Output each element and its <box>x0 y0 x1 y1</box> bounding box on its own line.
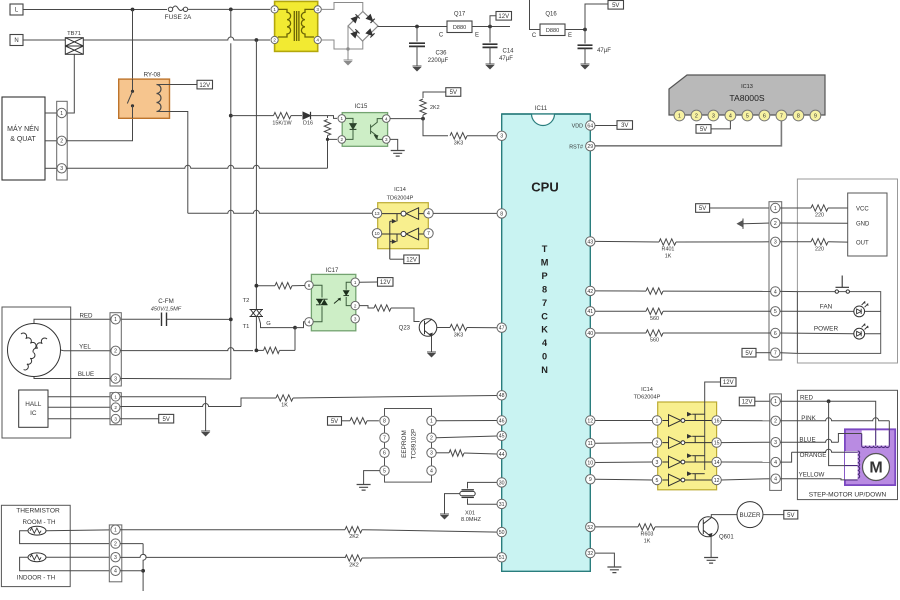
svg-text:N: N <box>541 365 548 375</box>
wire conn pin3 to 220 to OUT <box>780 241 811 243</box>
ground eeprom <box>357 485 371 491</box>
wire buzzer to 5V <box>763 514 784 516</box>
svg-text:12V: 12V <box>199 83 210 89</box>
bridge rectifier D1-D4 <box>348 12 378 42</box>
svg-text:32: 32 <box>587 551 593 557</box>
svg-text:TD62004P: TD62004P <box>634 395 661 401</box>
IC14R inverter 1 <box>669 415 682 427</box>
relay coil <box>157 85 162 112</box>
svg-text:1: 1 <box>273 7 276 12</box>
supply 5V buzzer <box>784 510 798 519</box>
wire 12V feed to Q16 <box>530 0 541 30</box>
svg-text:0: 0 <box>542 352 547 362</box>
svg-text:12V: 12V <box>380 280 391 286</box>
diode D16 <box>303 112 311 120</box>
svg-text:3: 3 <box>774 440 777 446</box>
svg-text:51: 51 <box>499 555 505 561</box>
svg-text:3: 3 <box>60 166 63 172</box>
hall sensor box VCC GND OUT <box>848 193 887 256</box>
wire 5V to conn pin1 <box>710 207 771 209</box>
svg-text:P: P <box>542 271 548 281</box>
wire transformer pin4 to bridge <box>321 40 363 49</box>
svg-text:4: 4 <box>316 38 319 43</box>
wire coil to driver IC14 pin 13 <box>157 112 188 214</box>
svg-text:5V: 5V <box>787 513 794 519</box>
svg-text:R603: R603 <box>641 532 654 538</box>
svg-text:52: 52 <box>587 525 593 531</box>
step motor left winding <box>845 451 858 480</box>
EEPROM TC89102P <box>385 409 432 483</box>
svg-text:30: 30 <box>499 480 505 486</box>
wire Q23 emitter to ground <box>431 336 433 352</box>
resistor 560 b <box>646 330 663 336</box>
wire crystal to CPU31 <box>468 499 498 505</box>
wire CPU41 560 to conn pin5 <box>595 310 646 312</box>
svg-text:4: 4 <box>774 460 777 466</box>
svg-text:IC14: IC14 <box>641 387 653 393</box>
svg-text:14: 14 <box>714 460 720 466</box>
svg-text:3K3: 3K3 <box>454 333 464 339</box>
wire hall pin2 to 1K to CPU pin48 <box>120 404 241 407</box>
connector motor CN2 <box>110 313 121 386</box>
svg-text:ORANGE: ORANGE <box>800 452 827 459</box>
led POWER <box>854 328 865 339</box>
svg-text:IC: IC <box>30 410 37 417</box>
svg-text:11: 11 <box>588 441 593 447</box>
wire box to pin1 <box>45 112 57 114</box>
svg-text:3: 3 <box>774 240 777 246</box>
svg-text:5: 5 <box>656 478 659 484</box>
svg-text:8: 8 <box>500 211 503 217</box>
svg-text:4: 4 <box>430 468 433 474</box>
svg-text:RED: RED <box>800 395 814 402</box>
transformer T1 power <box>275 1 318 51</box>
CPU right pins <box>586 121 595 130</box>
svg-text:3: 3 <box>430 451 433 457</box>
IC14L clamp diode B <box>390 234 397 242</box>
supply 3V <box>617 121 633 130</box>
IC14L clamp diode A <box>390 214 397 222</box>
wire CPU43 R401 to conn pin3 <box>595 240 659 243</box>
wire 12V to IC14R common <box>705 382 721 470</box>
svg-text:T: T <box>542 244 548 254</box>
IC14R inverter 2 <box>669 437 682 449</box>
resistor Q23 base <box>374 305 391 311</box>
svg-text:2: 2 <box>114 405 117 410</box>
block THERMISTOR <box>1 505 70 586</box>
wire CPU11 to IC14R pin2 <box>595 442 652 445</box>
svg-text:TB71: TB71 <box>67 31 81 37</box>
svg-text:6: 6 <box>383 451 386 457</box>
svg-text:41: 41 <box>587 309 593 315</box>
svg-text:47µF: 47µF <box>597 48 611 54</box>
svg-text:Q601: Q601 <box>719 535 734 541</box>
svg-text:12V: 12V <box>723 380 734 386</box>
wire L to relay switch <box>132 10 134 80</box>
svg-text:POWER: POWER <box>814 326 839 333</box>
svg-text:6: 6 <box>308 283 311 288</box>
svg-text:10: 10 <box>374 231 380 236</box>
resistor eeprom pullup <box>342 420 351 422</box>
IC14R stage wire 4 <box>662 479 711 481</box>
resistor 3K3 zero-cross <box>450 133 467 139</box>
IC14R clamp diode 4 <box>687 474 695 480</box>
IC14R inverter 4 <box>669 474 682 486</box>
svg-text:X01: X01 <box>465 511 475 517</box>
gnd arrow display <box>738 221 744 227</box>
svg-text:Q16: Q16 <box>545 12 557 18</box>
ground crystal <box>440 513 449 515</box>
wire IC13 pin7 to CPU RST <box>594 121 781 146</box>
svg-text:M: M <box>541 257 549 267</box>
wire IC15 pin4 to pullup node <box>390 118 423 120</box>
IC14L inverter A <box>382 208 424 220</box>
svg-text:9: 9 <box>814 114 817 120</box>
wire IC15 pin3 to ground <box>390 139 398 150</box>
svg-text:450V/1,5MF: 450V/1,5MF <box>151 307 182 313</box>
ground C36 <box>413 65 422 67</box>
svg-text:4: 4 <box>385 116 388 121</box>
IC14L common line <box>389 221 391 259</box>
svg-text:2: 2 <box>695 114 698 120</box>
svg-text:C-FM: C-FM <box>158 298 173 305</box>
svg-text:7: 7 <box>780 114 783 120</box>
svg-text:INDOOR - TH: INDOOR - TH <box>17 575 55 582</box>
svg-text:4: 4 <box>114 569 117 575</box>
ground hall <box>201 430 210 432</box>
resistor 2K2 indoor <box>345 555 362 561</box>
wire Q17 E to 12V node <box>472 26 510 28</box>
svg-text:YEL: YEL <box>79 344 91 351</box>
supply 12V step motor <box>739 397 755 406</box>
svg-text:D16: D16 <box>303 121 313 127</box>
svg-text:8: 8 <box>383 419 386 425</box>
wire eeprom pin2 to CPU45 <box>436 436 497 438</box>
wire CPU52 to R603 <box>595 526 638 528</box>
wire CPU12 to IC14R pin1 <box>595 420 652 422</box>
svg-text:IC17: IC17 <box>326 268 339 274</box>
svg-text:T2: T2 <box>243 298 250 304</box>
svg-text:GND: GND <box>856 221 870 227</box>
svg-text:5: 5 <box>746 114 749 120</box>
svg-text:OUT: OUT <box>856 240 869 246</box>
supply 12V IC14R <box>721 378 737 387</box>
wire room th to 2K2 to CPU50 <box>120 529 345 531</box>
supply 5V hall <box>159 414 174 423</box>
IC14L inverter B <box>382 228 424 240</box>
svg-text:5V: 5V <box>700 127 707 133</box>
IC13 pins 1-9 <box>674 110 685 121</box>
svg-text:10: 10 <box>587 460 593 466</box>
svg-text:1: 1 <box>678 114 681 120</box>
svg-text:7: 7 <box>774 351 777 357</box>
block HALL IC <box>19 390 48 427</box>
capacitor C36 2200uF <box>416 27 418 42</box>
IC14R clamp diode 2 <box>687 436 695 442</box>
wire IC14L pin4 to CPU pin8 <box>433 212 497 214</box>
supply 5V display <box>696 204 710 213</box>
wire thermistor common down <box>120 543 143 545</box>
svg-text:1: 1 <box>114 528 117 534</box>
svg-text:TA8000S: TA8000S <box>729 93 764 103</box>
svg-text:560: 560 <box>650 338 659 344</box>
IC14R stage wire 1 <box>662 420 711 422</box>
svg-text:BUZER: BUZER <box>740 512 762 519</box>
ground Q601 <box>704 558 718 564</box>
IC14R stage wire 2 <box>662 442 711 444</box>
svg-text:31: 31 <box>499 502 505 508</box>
supply 12V relay <box>197 80 213 89</box>
svg-text:47: 47 <box>499 326 505 332</box>
connector compressor CN1 <box>57 101 67 180</box>
svg-text:2K2: 2K2 <box>430 105 440 111</box>
supply 12V main <box>496 12 512 21</box>
svg-text:5: 5 <box>383 468 386 474</box>
wire eeprom pin3 resistor to CPU44 <box>436 452 449 454</box>
svg-text:42: 42 <box>587 289 593 295</box>
ground CPU32 <box>607 567 621 573</box>
svg-text:220: 220 <box>815 246 824 252</box>
wire IC14R pin14 to step conn4 <box>721 461 771 463</box>
ground IC15 <box>391 151 405 157</box>
svg-text:5V: 5V <box>163 417 170 423</box>
svg-text:47µF: 47µF <box>499 56 513 62</box>
resistor R401 1K <box>659 239 676 245</box>
crystal X01 8.0MHZ <box>462 489 474 491</box>
svg-text:C: C <box>532 33 537 39</box>
wire CPU32 to ground <box>595 553 614 566</box>
svg-text:K: K <box>541 325 548 335</box>
svg-text:EEPROM: EEPROM <box>401 430 408 458</box>
buzzer BUZER <box>737 502 763 528</box>
svg-text:E: E <box>475 33 479 39</box>
svg-text:T1: T1 <box>243 324 250 330</box>
svg-text:C: C <box>439 33 444 39</box>
svg-text:12V: 12V <box>742 400 753 406</box>
step motor outer box <box>797 390 897 499</box>
svg-text:48: 48 <box>499 393 505 399</box>
wire RED center tap branch <box>829 401 845 465</box>
wire fuse to transformer pin 1 <box>188 8 270 10</box>
wire N to transformer pin 2 <box>23 37 270 40</box>
svg-text:4: 4 <box>542 338 548 348</box>
wire VDD to 3V <box>594 125 617 127</box>
IC17 internal photodiode <box>346 282 351 305</box>
resistor IC17 pin6 to N rail <box>256 285 275 287</box>
svg-text:5V: 5V <box>331 419 338 425</box>
svg-text:5V: 5V <box>699 206 706 212</box>
wire CPU9 to IC14R pin5 <box>595 478 652 481</box>
svg-text:1: 1 <box>114 317 117 323</box>
ground C14 <box>486 63 495 65</box>
IC14R clamp diode 3 <box>687 456 695 462</box>
svg-text:2: 2 <box>354 303 357 308</box>
wire bridge output rail <box>378 25 447 28</box>
resistor 560 a <box>646 308 663 314</box>
svg-text:1: 1 <box>114 394 117 399</box>
wire hall pin3 to 5V <box>120 418 158 420</box>
svg-text:3: 3 <box>114 555 117 561</box>
wire box to pin2 <box>45 140 57 142</box>
thermistor INDOOR-TH <box>28 553 46 562</box>
svg-text:FAN: FAN <box>820 303 833 310</box>
resistor 2K2 room <box>345 527 362 533</box>
wire coil to 12V <box>157 84 198 86</box>
svg-text:7: 7 <box>383 436 386 442</box>
svg-text:1: 1 <box>774 399 777 405</box>
svg-text:5V: 5V <box>612 3 619 9</box>
terminal L <box>10 4 23 15</box>
svg-text:15: 15 <box>714 440 720 446</box>
svg-text:RST#: RST# <box>569 144 583 150</box>
svg-text:IC15: IC15 <box>355 104 368 110</box>
ground Q23 <box>427 351 436 353</box>
wire indoor th <box>46 556 110 558</box>
wire N rail vertical to triac <box>255 40 257 309</box>
svg-text:3: 3 <box>354 316 357 321</box>
wire IC14R pin15 to step conn3 <box>721 441 771 443</box>
wire YEL to triac T1 <box>120 348 253 351</box>
svg-text:C: C <box>541 311 548 321</box>
svg-text:2: 2 <box>656 440 659 446</box>
supply 5V eeprom <box>328 417 342 426</box>
svg-text:IC11: IC11 <box>535 106 548 112</box>
supply 12V IC17 <box>378 278 394 287</box>
svg-text:8: 8 <box>542 284 547 294</box>
wire box to pin3 <box>45 167 57 169</box>
led FAN <box>854 306 865 317</box>
svg-text:ROOM - TH: ROOM - TH <box>23 519 56 526</box>
wire eeprom pin1 to CPU46 <box>436 420 497 422</box>
supply 12V IC14L <box>404 255 420 264</box>
svg-text:3: 3 <box>656 460 659 466</box>
diode bridge arm 2 <box>366 14 374 22</box>
connector display CN5 <box>769 202 782 360</box>
resistor 3K3 Q23 <box>450 324 467 330</box>
wire Q23 collector to 3K3 <box>437 327 450 329</box>
wire CPU10 to IC14R pin3 <box>595 461 652 464</box>
svg-text:STEP-MOTOR UP/DOWN: STEP-MOTOR UP/DOWN <box>809 492 887 499</box>
thermistor ROOM-TH <box>28 526 46 535</box>
svg-text:5V: 5V <box>450 90 457 96</box>
capacitor C14 47uF <box>489 27 491 43</box>
svg-text:IC14: IC14 <box>394 187 406 193</box>
svg-text:2: 2 <box>774 419 777 425</box>
wire Q601 collector to buzzer <box>711 515 737 518</box>
step motor M circle <box>863 454 890 481</box>
svg-text:E: E <box>568 33 572 39</box>
svg-text:9: 9 <box>589 477 592 483</box>
connector step motor CN6 <box>770 394 782 491</box>
svg-text:3K3: 3K3 <box>454 141 464 147</box>
step motor unit <box>845 429 895 485</box>
svg-text:4: 4 <box>729 114 732 120</box>
svg-text:Q17: Q17 <box>454 12 466 18</box>
diode bridge arm 4 <box>366 29 374 37</box>
wire CPU42 to conn pin4 <box>595 290 646 292</box>
svg-text:1K: 1K <box>644 539 651 545</box>
supply 5V pullup <box>446 88 461 97</box>
svg-text:2K2: 2K2 <box>349 534 359 540</box>
resistor 220 out <box>811 239 828 245</box>
ground bridge <box>344 59 353 61</box>
svg-text:4: 4 <box>427 211 430 217</box>
svg-text:2K2: 2K2 <box>349 563 359 569</box>
supply 5V conn pin7 <box>742 348 756 357</box>
wire conn pin7 right <box>780 352 797 355</box>
svg-text:43: 43 <box>587 239 593 245</box>
IC14R stage wire 3 <box>662 461 711 463</box>
CPU IC11 TMP87CK40N <box>502 114 591 571</box>
resistor 220 vcc <box>811 205 828 211</box>
wire conn pin1 to 220 to VCC <box>780 207 811 209</box>
svg-text:1K: 1K <box>665 254 672 260</box>
push button <box>835 290 838 293</box>
wire CPU30 to crystal <box>468 482 498 488</box>
svg-text:12: 12 <box>587 418 593 424</box>
svg-text:45: 45 <box>499 434 505 440</box>
svg-text:2: 2 <box>430 436 433 442</box>
svg-text:29: 29 <box>587 144 593 150</box>
display unit outer box <box>797 179 897 363</box>
svg-text:40: 40 <box>587 331 593 337</box>
svg-text:THERMISTOR: THERMISTOR <box>16 508 60 515</box>
svg-text:8.0MHZ: 8.0MHZ <box>461 517 481 523</box>
wire eeprom pin5 to ground <box>364 471 380 484</box>
svg-text:12V: 12V <box>406 257 417 263</box>
wire hall pin1 to ground <box>120 397 205 431</box>
svg-text:4: 4 <box>774 477 777 483</box>
resistor 2K2 pullup <box>423 92 446 98</box>
svg-text:5V: 5V <box>745 351 752 357</box>
resistor 1K hall <box>276 395 293 401</box>
svg-text:13: 13 <box>374 211 380 216</box>
wire bridge negative to ground <box>347 26 349 60</box>
svg-text:M: M <box>869 460 882 477</box>
svg-text:1: 1 <box>656 418 659 424</box>
svg-text:2: 2 <box>60 139 63 145</box>
wire conn pin4 to key box <box>780 290 797 292</box>
svg-text:VDD: VDD <box>572 124 583 130</box>
fan motor windings <box>8 324 61 377</box>
svg-text:7: 7 <box>427 231 430 237</box>
svg-text:1: 1 <box>774 206 777 212</box>
wire 12V to step conn1 <box>755 400 771 402</box>
svg-text:15K/1W: 15K/1W <box>272 121 292 127</box>
fan motor enclosure <box>2 307 71 438</box>
svg-text:TD62004P: TD62004P <box>387 196 414 202</box>
wire CPU40 560 to conn pin6 <box>595 332 646 334</box>
svg-text:2: 2 <box>114 541 117 547</box>
svg-text:& QUAT: & QUAT <box>10 136 36 143</box>
svg-text:560: 560 <box>650 316 659 322</box>
svg-text:6: 6 <box>774 331 777 337</box>
svg-text:3: 3 <box>712 114 715 120</box>
resistor LED shunt vertical <box>324 120 330 136</box>
svg-text:6: 6 <box>763 114 766 120</box>
svg-text:IC13: IC13 <box>741 84 753 90</box>
wire IC14R pin12 to step conn5 <box>721 479 771 480</box>
svg-text:2: 2 <box>273 38 276 43</box>
IC14R clamp diode 1 <box>687 414 695 420</box>
svg-text:C36: C36 <box>435 51 447 57</box>
wire transformer pin3 to bridge <box>321 3 363 12</box>
svg-text:1: 1 <box>341 116 344 121</box>
svg-text:12V: 12V <box>498 14 509 20</box>
capacitor 47uF 5V rail <box>584 30 586 44</box>
svg-text:44: 44 <box>499 452 505 458</box>
svg-text:D880: D880 <box>546 28 559 34</box>
